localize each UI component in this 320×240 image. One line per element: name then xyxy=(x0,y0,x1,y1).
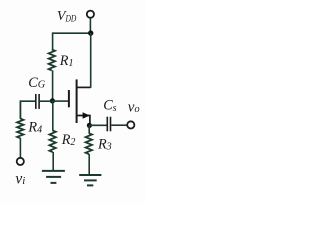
wire gate junction to gate bar xyxy=(53,100,69,102)
svg-text:R4: R4 xyxy=(27,120,42,136)
transistor Q1 source lead xyxy=(77,116,90,126)
wire source node to Cs left plate xyxy=(89,124,106,126)
junction dot source node xyxy=(87,123,92,128)
svg-text:Cs: Cs xyxy=(103,97,116,114)
capacitor CG right plate xyxy=(38,94,40,109)
ground under R3 xyxy=(79,175,101,185)
capacitor Cs left plate xyxy=(106,117,108,132)
ground under R2 xyxy=(42,171,65,183)
transistor Q1 channel xyxy=(76,79,78,123)
wire drain to VDD rail xyxy=(90,33,92,88)
resistor R3 xyxy=(86,133,92,154)
transistor Q1 gate bar xyxy=(68,90,70,107)
wire Cs right plate to vo terminal xyxy=(111,124,127,126)
capacitor CG left plate xyxy=(35,94,37,109)
wire R4 top corner from input xyxy=(19,101,21,119)
junction dot VDD rail xyxy=(88,30,93,35)
wire VDD terminal to rail xyxy=(89,18,91,33)
svg-text:vo: vo xyxy=(128,99,140,115)
transistor Q1 source arrow xyxy=(83,112,90,119)
svg-text:VDD: VDD xyxy=(57,9,76,25)
svg-text:R2: R2 xyxy=(61,132,76,148)
terminal vo xyxy=(127,121,134,128)
wire R3 bottom to ground xyxy=(88,154,90,175)
capacitor Cs right plate xyxy=(110,117,112,132)
svg-text:R3: R3 xyxy=(97,137,112,153)
transistor Q1 drain lead xyxy=(77,86,91,88)
svg-text:R1: R1 xyxy=(59,53,74,69)
wire R1 bottom to gate node xyxy=(52,70,54,101)
wire input corner to CG left plate xyxy=(20,101,35,119)
wire source node to R3 top xyxy=(88,125,90,133)
resistor R1 xyxy=(49,50,55,71)
wire VDD rail xyxy=(53,32,91,34)
wire gate junction to R2 top xyxy=(52,101,54,131)
wire R4 bottom to vi terminal xyxy=(19,138,21,157)
svg-text:CG: CG xyxy=(28,75,45,91)
terminal VDD xyxy=(87,11,94,18)
wire rail corner to R1 top xyxy=(52,32,54,49)
svg-text:vi: vi xyxy=(15,170,25,187)
wire CG right plate to gate junction xyxy=(40,100,53,102)
wire R2 bottom to ground xyxy=(52,152,54,171)
resistor R4 xyxy=(17,119,23,139)
terminal vi xyxy=(17,158,24,165)
resistor R2 xyxy=(49,131,55,153)
junction dot gate node xyxy=(50,98,55,103)
